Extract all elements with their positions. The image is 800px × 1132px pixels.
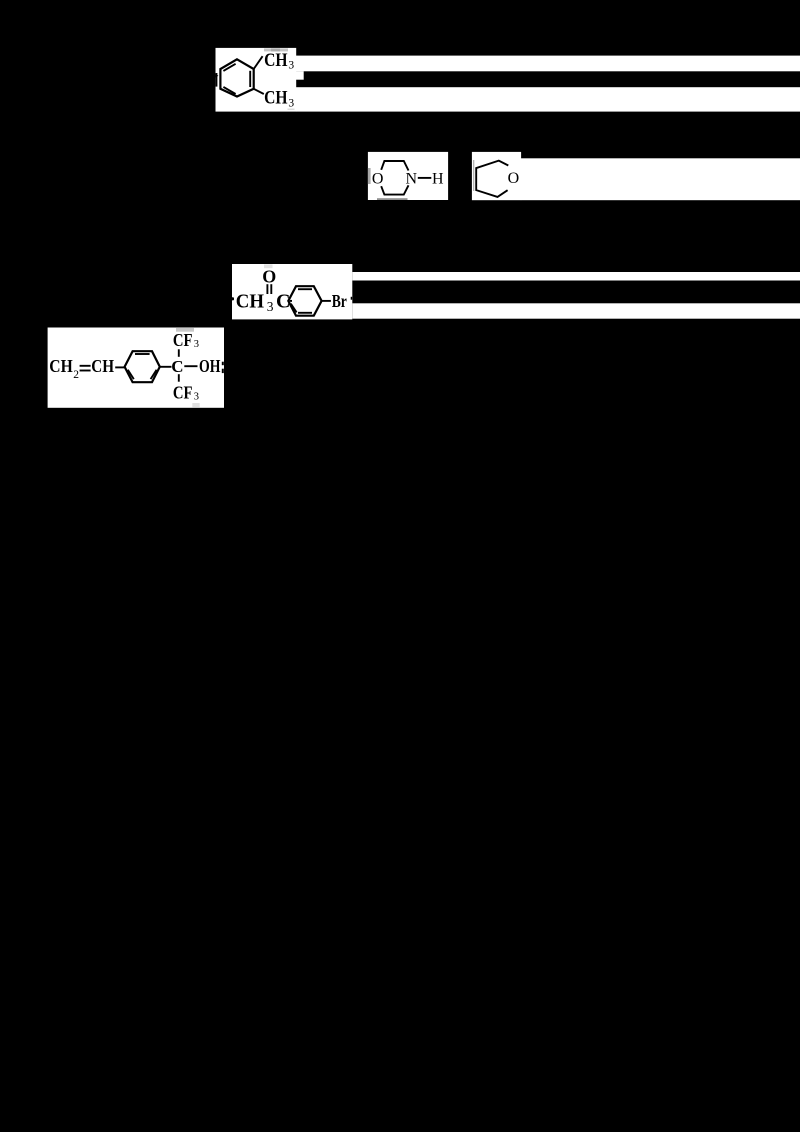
bond CH to ring (styrene) bbox=[115, 366, 124, 368]
gray artifact at bottom of box 5 bbox=[192, 403, 199, 407]
bond C to upper CF3 bbox=[178, 349, 180, 357]
double bond inner line lower-left (acetophenone ring) bbox=[291, 304, 297, 313]
svg-text:CH: CH bbox=[91, 356, 114, 376]
svg-text:3: 3 bbox=[288, 60, 294, 72]
bond ring to central C (styrene) bbox=[160, 366, 172, 368]
white box 5 (styrene hexafluoro alcohol image) bbox=[48, 328, 224, 408]
apostrophe-like cut fragment after Br bbox=[351, 297, 353, 300]
svg-text:CH: CH bbox=[264, 89, 288, 109]
svg-text:Br: Br bbox=[332, 291, 347, 311]
gray vertical line fragment at left of THF box bbox=[473, 160, 474, 191]
bond to upper CH3 (o-xylene) bbox=[254, 56, 263, 69]
gray artifact bar above upper CH3 of box 1 bbox=[264, 48, 288, 51]
white box 1 (o-xylene image) bbox=[216, 48, 297, 112]
double bond inner line top (styrene ring) bbox=[135, 353, 150, 355]
bond C to ring (acetophenone) bbox=[290, 300, 292, 302]
double bond inner line lower-left (o-xylene) bbox=[223, 87, 235, 94]
double bond = of vinyl bbox=[80, 365, 91, 367]
white strip D (line gap right of box 4) bbox=[352, 303, 800, 318]
white strip B (line gap right of box 1) bbox=[296, 87, 800, 111]
svg-text:3: 3 bbox=[194, 392, 199, 403]
benzene ring (o-xylene) bbox=[220, 59, 253, 96]
double bond inner line upper-left (o-xylene) bbox=[223, 64, 235, 71]
svg-text:2: 2 bbox=[73, 369, 79, 381]
svg-text:CH: CH bbox=[236, 291, 265, 313]
double bond inner line right (o-xylene) bbox=[249, 71, 251, 87]
white box 3 (THF image) bbox=[472, 152, 521, 200]
svg-text:O: O bbox=[508, 170, 520, 187]
black cut-off character fragment at left edge of box 1 bbox=[216, 73, 219, 87]
svg-text:3: 3 bbox=[194, 339, 199, 350]
gray fragment at left edge of morpholine box bbox=[368, 168, 371, 184]
svg-text:OH: OH bbox=[199, 356, 221, 376]
gray artifact above upper CF3 of box 5 bbox=[176, 328, 194, 332]
svg-text:CF: CF bbox=[173, 330, 193, 350]
morpholine ring bbox=[381, 161, 408, 195]
white strip A (line gap right of box 1) bbox=[296, 56, 800, 72]
benzene ring (styrene) bbox=[125, 351, 160, 382]
svg-text:N: N bbox=[406, 170, 418, 187]
svg-text:CH: CH bbox=[49, 356, 73, 376]
white step connector under strip A bbox=[296, 71, 304, 80]
gray patch above carbonyl O of box 4 bbox=[264, 264, 273, 268]
double bond inner line top (acetophenone ring) bbox=[298, 288, 312, 290]
svg-text:3: 3 bbox=[267, 299, 274, 314]
white strip E (line gap right of THF box) bbox=[521, 158, 800, 200]
gray smudge below lower CH3 subscript of box 1 bbox=[288, 109, 295, 111]
label CH2=CH left part bbox=[49, 356, 79, 381]
svg-text:CF: CF bbox=[173, 383, 193, 403]
white box 2 (morpholine image) bbox=[368, 152, 448, 200]
bond ring to Br (acetophenone) bbox=[322, 300, 331, 302]
carbonyl double bond C=O bbox=[266, 284, 268, 294]
label upper CF3 bbox=[173, 330, 199, 350]
bond C to lower CF3 bbox=[178, 374, 180, 382]
double bond inner line lower-right (styrene ring) bbox=[151, 370, 157, 379]
label CH3 lower (o-xylene) bbox=[264, 89, 294, 110]
gray fragment at bottom of morpholine box bbox=[377, 198, 408, 200]
bond C to OH bbox=[184, 365, 197, 367]
THF ring (pentagon) bbox=[476, 161, 508, 197]
svg-text:O: O bbox=[262, 267, 276, 287]
black cut-off character fragment at left edge of box 4 bbox=[231, 297, 234, 300]
label CH3 upper (o-xylene) bbox=[264, 51, 294, 71]
label lower CF3 bbox=[173, 383, 199, 403]
svg-text:H: H bbox=[432, 171, 444, 188]
svg-text:C: C bbox=[171, 357, 183, 376]
svg-text:3: 3 bbox=[288, 98, 294, 110]
svg-text:O: O bbox=[372, 171, 384, 188]
cut-off character fragment after OH bbox=[222, 362, 224, 373]
svg-text:CH: CH bbox=[264, 51, 288, 71]
double bond inner line bottom (acetophenone ring) bbox=[298, 312, 312, 314]
double bond inner line lower-left (styrene ring) bbox=[128, 370, 134, 379]
benzene ring (acetophenone) bbox=[288, 286, 321, 316]
white strip C (line gap right of box 4) bbox=[352, 272, 800, 281]
bond to lower CH3 (o-xylene) bbox=[254, 89, 264, 94]
label CH3C (acetophenone) bbox=[236, 291, 291, 314]
bond N-H (morpholine) bbox=[418, 177, 432, 179]
white box 4 (bromoacetophenone image) bbox=[232, 264, 352, 319]
